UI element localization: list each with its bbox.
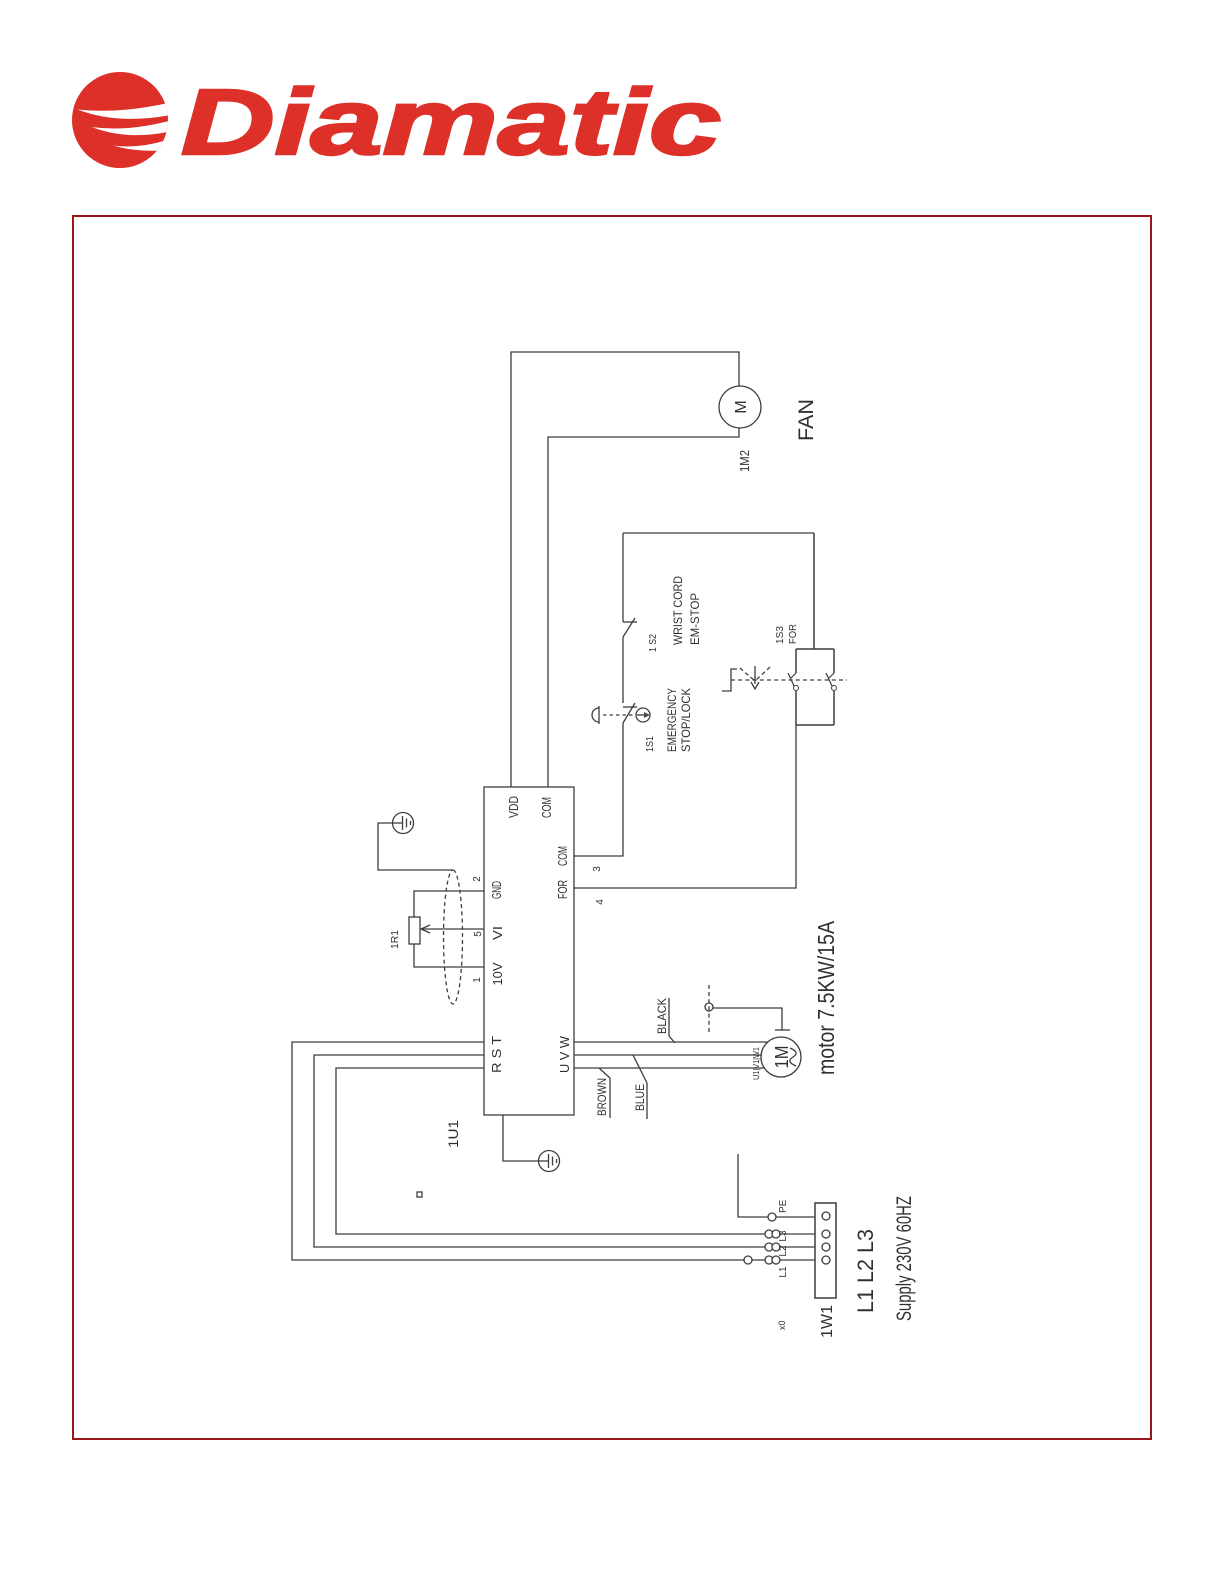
- potentiometer 1R1 body: [409, 917, 420, 944]
- cable shield ellipse: [444, 870, 463, 1004]
- svg-text:Diamatic: Diamatic: [181, 70, 721, 174]
- wire 1S3 to loop: [813, 533, 815, 649]
- fan motor 1M2: [719, 386, 761, 428]
- VFD drive 1U1 box: [484, 787, 574, 1115]
- wire drive ground: [503, 1115, 538, 1161]
- svg-text:1S3: 1S3: [775, 626, 786, 644]
- terminal circles L1: [744, 1256, 780, 1264]
- svg-text:L2: L2: [778, 1245, 789, 1257]
- 1S3 left bracket: [796, 724, 834, 726]
- motor PE link dashed: [708, 985, 710, 1032]
- svg-text:VI: VI: [490, 926, 505, 940]
- 1S3 upper contact: [788, 649, 799, 725]
- main motor 1M: [761, 1037, 801, 1077]
- label BROWN: [595, 1068, 610, 1118]
- svg-text:EMERGENCY: EMERGENCY: [665, 688, 679, 752]
- svg-text:PE: PE: [778, 1199, 789, 1213]
- svg-text:L1 L2 L3: L1 L2 L3: [853, 1229, 878, 1313]
- svg-text:M: M: [733, 400, 750, 413]
- 1S3 lever actuator: [722, 666, 770, 691]
- motor frame tick: [775, 1029, 790, 1031]
- label BLUE: [633, 1055, 647, 1119]
- svg-text:U1|V1|W1: U1|V1|W1: [752, 1047, 761, 1080]
- Diamatic logo globe: [72, 72, 172, 168]
- wire 1S1 to COM pin 3: [574, 723, 623, 856]
- svg-text:10V: 10V: [490, 962, 505, 985]
- svg-text:FOR: FOR: [555, 880, 570, 899]
- wire output U: [574, 1067, 765, 1069]
- wire 10V pin 1 to potentiometer: [414, 944, 484, 967]
- terminal circles L3: [765, 1230, 780, 1238]
- PE wire: [738, 1154, 815, 1217]
- svg-text:1M: 1M: [772, 1046, 792, 1069]
- svg-text:motor 7.5KW/15A: motor 7.5KW/15A: [813, 920, 839, 1075]
- svg-text:EM-STOP: EM-STOP: [688, 593, 702, 645]
- terminal circles L2: [765, 1243, 780, 1251]
- e-stop mushroom head: [592, 706, 599, 724]
- svg-text:WRIST CORD: WRIST CORD: [671, 576, 685, 645]
- svg-text:Supply 230V 60HZ: Supply 230V 60HZ: [893, 1196, 916, 1321]
- svg-text:FAN: FAN: [795, 399, 818, 441]
- switch 1S2: [623, 618, 637, 637]
- svg-text:1U1: 1U1: [445, 1120, 461, 1148]
- terminal circle PE: [768, 1213, 776, 1221]
- wire input S to L2: [314, 1055, 815, 1247]
- svg-text:COM: COM: [555, 846, 570, 866]
- switch 1S1: [623, 703, 637, 723]
- shield drain wire: [378, 823, 452, 870]
- svg-text:5: 5: [473, 931, 484, 937]
- mechanical link dashed: [603, 714, 634, 716]
- svg-text:1W1: 1W1: [819, 1305, 836, 1338]
- wire between 1S1 and 1S2: [622, 637, 624, 703]
- twist-release symbol: [636, 708, 650, 722]
- wire FOR pin 4 to 1S3: [574, 725, 796, 888]
- svg-text:3: 3: [592, 866, 603, 872]
- label BLACK: [655, 998, 675, 1043]
- svg-text:L3: L3: [778, 1230, 789, 1242]
- svg-text:COM: COM: [539, 797, 554, 818]
- motor PE wire: [713, 1008, 782, 1030]
- terminal block 1W1: [815, 1203, 836, 1298]
- svg-text:STOP/LOCK: STOP/LOCK: [679, 688, 693, 752]
- svg-text:BLACK: BLACK: [655, 998, 669, 1034]
- 1S3 lower contact: [826, 649, 837, 725]
- svg-text:1M2: 1M2: [737, 450, 752, 472]
- wire EM-stop loop right side: [623, 532, 814, 534]
- svg-text:1 S2: 1 S2: [648, 634, 659, 652]
- svg-text:1S1: 1S1: [645, 736, 656, 752]
- 1S3 mechanical link dashed: [731, 679, 847, 681]
- svg-text:U V W: U V W: [557, 1035, 572, 1073]
- svg-text:2: 2: [472, 876, 483, 882]
- wiper arrowhead: [421, 925, 430, 933]
- ground symbol drive: [539, 1151, 560, 1172]
- svg-text:VDD: VDD: [506, 796, 521, 818]
- motor PE terminal circle: [705, 1003, 713, 1011]
- svg-text:4: 4: [595, 899, 606, 905]
- svg-text:R S T: R S T: [489, 1036, 504, 1073]
- svg-text:BLUE: BLUE: [633, 1084, 647, 1111]
- wire output V: [574, 1054, 762, 1056]
- svg-text:L1: L1: [778, 1266, 789, 1278]
- 1S3 right bracket: [796, 648, 834, 650]
- svg-text:FOR: FOR: [788, 624, 799, 644]
- svg-text:BROWN: BROWN: [595, 1078, 609, 1116]
- svg-text:GND: GND: [489, 881, 504, 899]
- svg-text:1R1: 1R1: [390, 930, 401, 949]
- wire VDD to fan circuit: [511, 352, 739, 787]
- wire input R to L3: [336, 1068, 815, 1234]
- wire loop top to switch 1S2: [622, 533, 624, 622]
- wire VI pin 5 wiper: [422, 928, 484, 930]
- ground symbol shield: [393, 813, 414, 834]
- red schematic frame: [73, 216, 1151, 1439]
- wire COM to fan circuit: [548, 428, 739, 787]
- stray small square: [417, 1192, 422, 1197]
- wire output W: [574, 1041, 768, 1043]
- wire input T to L1: [292, 1042, 815, 1260]
- wire GND pin 2 to potentiometer: [414, 891, 484, 917]
- svg-text:x0: x0: [777, 1320, 787, 1330]
- svg-text:1: 1: [472, 977, 483, 983]
